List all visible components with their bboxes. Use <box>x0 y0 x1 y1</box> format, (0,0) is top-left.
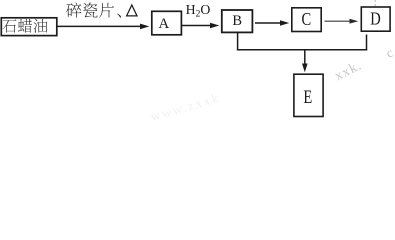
box B <box>222 10 253 32</box>
faint dotted line above D <box>374 0 376 6</box>
arrow: A to B <box>182 25 212 27</box>
label char 瓷 <box>83 3 98 18</box>
wire: bracket horizontal <box>237 49 367 51</box>
svg-text:D: D <box>370 10 381 29</box>
wire: below B down to bracket <box>237 33 239 50</box>
svg-text:A: A <box>158 16 169 32</box>
box A <box>152 11 182 35</box>
label char 蜡 <box>18 19 32 33</box>
svg-text:E: E <box>303 86 312 107</box>
label char 碎 <box>66 3 81 18</box>
arrow: paraffin to A <box>58 25 142 27</box>
box D <box>361 7 390 31</box>
label char 油 <box>33 19 47 33</box>
svg-text:C: C <box>301 11 311 30</box>
svg-text:B: B <box>232 13 242 29</box>
wire: below D down to bracket <box>366 35 368 51</box>
triangle (heat) symbol <box>127 5 137 16</box>
arrow: C to D (thin) <box>325 20 352 22</box>
box C <box>292 8 321 32</box>
arrow: B to C <box>255 22 282 24</box>
label char 片 <box>99 3 114 18</box>
label char 、 <box>117 14 121 18</box>
box E <box>294 74 323 116</box>
box: paraffin oil (石蜡油) <box>1 18 57 36</box>
arrow: bracket down to E <box>304 50 306 66</box>
label char 石 <box>2 19 16 32</box>
